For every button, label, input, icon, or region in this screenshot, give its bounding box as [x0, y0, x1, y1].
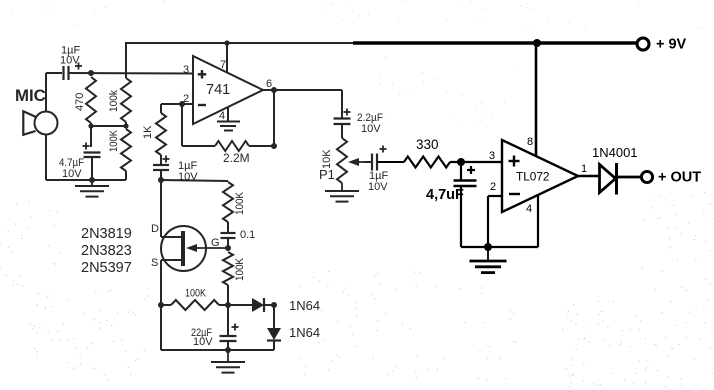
svg-text:8: 8 — [527, 136, 533, 148]
svg-text:100K: 100K — [185, 288, 207, 300]
svg-text:3: 3 — [489, 150, 495, 162]
svg-text:470: 470 — [74, 93, 86, 111]
svg-text:6: 6 — [266, 78, 272, 90]
svg-text:0.1: 0.1 — [240, 229, 255, 241]
svg-text:2: 2 — [490, 181, 496, 193]
svg-text:10V: 10V — [62, 168, 82, 180]
svg-text:2N3823: 2N3823 — [81, 243, 132, 259]
svg-text:4,7uF: 4,7uF — [426, 187, 464, 203]
svg-text:100K: 100K — [108, 129, 120, 152]
svg-text:741: 741 — [206, 82, 230, 98]
svg-text:7: 7 — [220, 59, 226, 71]
svg-text:4: 4 — [526, 203, 532, 215]
svg-text:TL072: TL072 — [516, 170, 550, 184]
svg-text:1: 1 — [581, 163, 587, 175]
svg-text:1N4001: 1N4001 — [592, 145, 638, 160]
svg-text:10V: 10V — [368, 181, 388, 193]
svg-text:2N3819: 2N3819 — [81, 226, 132, 242]
svg-text:1N64: 1N64 — [289, 325, 320, 340]
svg-text:1K: 1K — [142, 125, 154, 139]
svg-text:+ 9V: + 9V — [656, 37, 687, 53]
svg-text:4: 4 — [219, 110, 225, 122]
svg-text:10V: 10V — [60, 55, 80, 67]
svg-text:1N64: 1N64 — [289, 298, 320, 313]
svg-text:+ OUT: + OUT — [658, 170, 701, 186]
svg-text:D: D — [151, 223, 159, 235]
svg-text:2.2M: 2.2M — [223, 151, 250, 165]
svg-text:10V: 10V — [193, 336, 213, 348]
svg-text:3: 3 — [183, 64, 189, 76]
svg-text:330: 330 — [416, 137, 439, 152]
svg-text:S: S — [151, 257, 158, 269]
svg-text:MIC: MIC — [15, 86, 46, 105]
svg-text:100K: 100K — [234, 257, 246, 281]
svg-text:P1: P1 — [319, 167, 335, 182]
svg-text:10V: 10V — [361, 123, 381, 135]
svg-text:100K: 100K — [234, 191, 246, 215]
svg-text:100k: 100k — [108, 90, 120, 112]
svg-text:10K: 10K — [321, 149, 333, 169]
svg-text:2N5397: 2N5397 — [81, 260, 132, 276]
